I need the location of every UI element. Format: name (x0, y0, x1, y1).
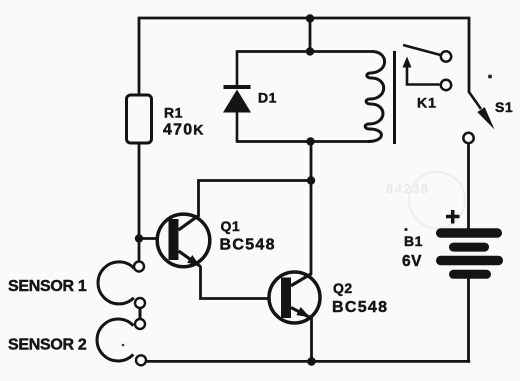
switch S1 blade (469, 92, 495, 130)
transistor Q1 (157, 214, 210, 267)
sensor 1 bottom pad terminal (135, 298, 145, 308)
wire Q2 emitter drop (310, 318, 313, 361)
wire top rail drop to snubber line (309, 18, 312, 52)
battery B1 plate 2 (449, 243, 489, 252)
transistor Q2 (269, 272, 320, 323)
battery B1 plate 4 (449, 270, 491, 279)
svg-text:470K: 470K (163, 122, 205, 139)
switch S1 terminal (463, 133, 473, 143)
speck artifact near S1 (488, 75, 492, 79)
wire snubber bottom line (D1 to coil) (237, 140, 368, 143)
junction Q2 emitter / bottom rail (307, 357, 316, 366)
relay K1 contact top terminal (441, 51, 451, 61)
svg-text:84238: 84238 (386, 181, 430, 196)
relay K1 contact blade (403, 45, 441, 55)
svg-text:SENSOR 1: SENSOR 1 (8, 278, 87, 295)
ghost print-through circle artifact (409, 172, 465, 228)
junction R1 / Q1 base / sensor node (135, 234, 143, 242)
wire Q1 emitter to Q2 base (201, 267, 282, 299)
junction snubber top line (306, 47, 314, 55)
svg-text:BC548: BC548 (220, 237, 276, 254)
wire Q1 base lead (139, 237, 169, 240)
wire sensor link (139, 308, 142, 320)
speck artifact in sensor 2 (122, 344, 125, 347)
diode D1 (223, 52, 251, 142)
svg-text:6V: 6V (402, 253, 422, 270)
svg-text:Q2: Q2 (333, 280, 353, 296)
wire S1 to battery (467, 143, 470, 229)
relay K1 core bar (393, 51, 396, 144)
svg-text:B1: B1 (404, 233, 423, 249)
sensor 2 top pad terminal (135, 319, 145, 329)
svg-text:K1: K1 (417, 95, 437, 111)
battery B1 plus sign (446, 210, 460, 224)
resistor R1 body (127, 95, 152, 143)
svg-text:S1: S1 (495, 99, 513, 115)
wire bottom rail (147, 360, 470, 363)
sensor 2 bottom pad terminal (136, 355, 146, 365)
battery B1 plate 3 (436, 256, 503, 265)
wire right rail to S1 (468, 18, 471, 92)
svg-text:BC548: BC548 (332, 299, 388, 316)
svg-text:SENSOR 2: SENSOR 2 (8, 337, 87, 354)
battery B1 plate 1 (436, 228, 502, 238)
sensor 2 arc electrode (97, 319, 133, 361)
wire Q1 collector link (199, 181, 312, 215)
relay K1 coil (365, 52, 384, 142)
speck artifact above B1 (404, 228, 407, 231)
relay K1 actuator arrow (403, 57, 440, 85)
junction Q1 collector / Q2 collector rail (307, 176, 315, 184)
sensor 1 top pad terminal (134, 262, 144, 272)
wire R1 bottom to Q1 base node (138, 143, 141, 262)
svg-text:D1: D1 (258, 90, 277, 106)
wire snubber top line (D1 to coil) (237, 50, 372, 53)
wire coil bottom to collector rail (310, 142, 313, 274)
wire top rail (139, 17, 469, 20)
relay K1 contact bottom terminal (441, 80, 451, 90)
junction top rail / snubber drop (306, 14, 314, 22)
wire battery to bottom rail (467, 278, 470, 361)
sensor 1 arc electrode (98, 262, 134, 304)
wire left drop to R1 (138, 18, 141, 95)
svg-text:R1: R1 (164, 105, 183, 121)
junction snubber bottom line (306, 137, 314, 145)
svg-text:Q1: Q1 (221, 218, 241, 234)
